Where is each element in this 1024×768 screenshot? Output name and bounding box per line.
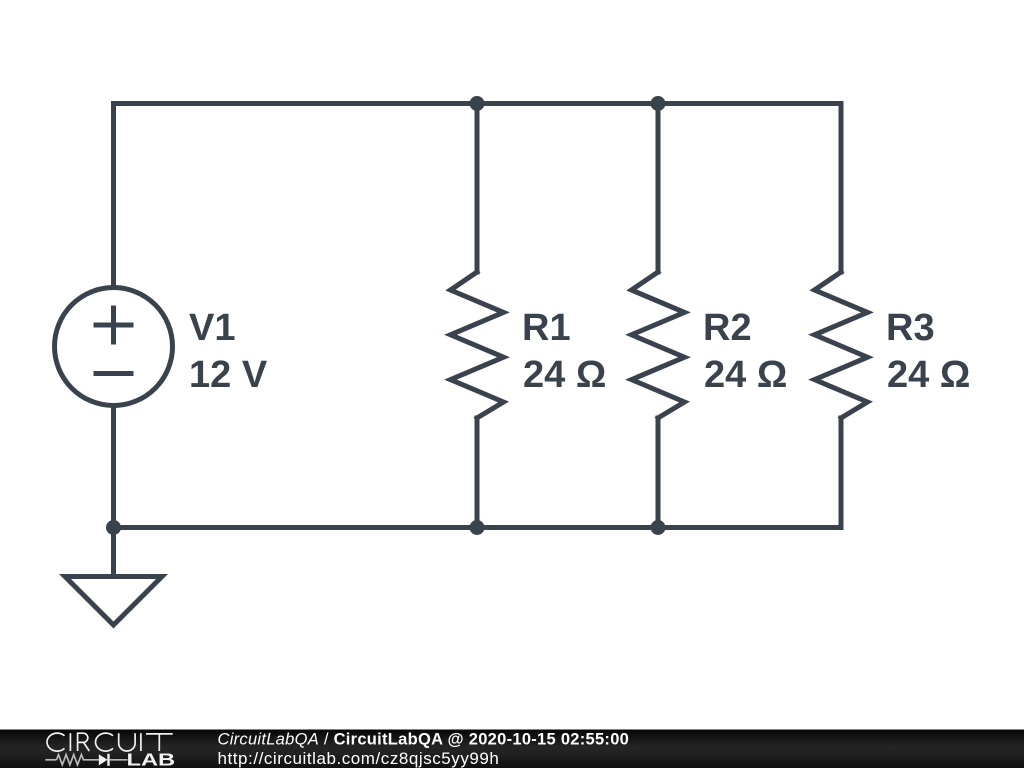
resistor R1 [451,272,504,418]
footer bar [0,730,1024,768]
svg-text:R1: R1 [522,307,571,349]
resistor R2 [632,272,685,418]
voltage source V1 circle [55,288,173,406]
wire bottom horizontal [114,525,842,530]
svg-text:CircuitLabQA / CircuitLabQA @: CircuitLabQA / CircuitLabQA @ 2020-10-15… [218,731,630,749]
svg-text:R2: R2 [703,307,752,349]
svg-text:24 Ω: 24 Ω [704,354,787,396]
svg-text:24 Ω: 24 Ω [887,354,970,396]
resistor R3 [815,272,868,418]
wire R1 bottom lead [475,418,480,528]
wire left vertical (V1 top lead) [111,104,116,286]
svg-text:http://circuitlab.com/cz8qjsc5: http://circuitlab.com/cz8qjsc5yy99h [218,749,500,768]
svg-text:24 Ω: 24 Ω [523,354,606,396]
logo mini-schematic diode [99,754,110,766]
wire V1 bottom lead [111,408,116,528]
svg-text:LAB: LAB [127,751,176,768]
node junction dot bottom R2 [651,520,666,535]
svg-text:R3: R3 [886,307,935,349]
CircuitLab logo wordmark CIRCUIT [47,733,173,751]
wire ground stem [111,528,116,577]
wire R2 top lead [656,104,661,273]
wire R3 bottom lead [839,418,844,528]
node junction dot top R2 [651,96,666,111]
wire R2 bottom lead [656,418,661,528]
node junction dot bottom left [106,520,121,535]
ground [65,577,162,626]
logo mini-schematic wire [45,755,127,765]
node junction dot top R1 [470,96,485,111]
V1 plus sign [94,306,134,345]
svg-text:12 V: 12 V [189,354,268,396]
wire R3 top lead [839,104,844,273]
wire R1 top lead [475,104,480,273]
node junction dot bottom R1 [470,520,485,535]
wire top horizontal [114,101,842,106]
svg-text:V1: V1 [189,307,235,349]
V1 minus sign [94,371,134,376]
